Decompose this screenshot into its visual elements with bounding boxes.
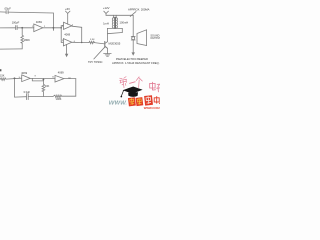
transformer T1 core <box>114 17 117 28</box>
wire to base <box>82 42 89 44</box>
svg-text:100mH: 100mH <box>120 21 129 25</box>
wire U1a output <box>43 27 61 29</box>
wire feedback bottom left <box>28 95 53 97</box>
svg-text:.05µF: .05µF <box>4 6 11 10</box>
wire U1e output <box>64 78 76 80</box>
wire input left <box>0 27 16 29</box>
wire R3 drop <box>42 79 44 85</box>
inverter U1a <box>34 24 43 32</box>
node junction R3 top <box>43 79 45 81</box>
wire feedback bottom right <box>62 95 76 97</box>
watermark char 3 <box>136 77 143 88</box>
resistor R1 180K <box>21 28 24 49</box>
inverter U1d <box>22 75 31 82</box>
wire top feedback left <box>0 11 6 13</box>
resistor R4 100K <box>53 95 62 98</box>
wire piezo bottom <box>132 40 134 53</box>
wire U1d output <box>30 77 55 79</box>
wire LFO input left <box>0 78 2 80</box>
wire LFO drop vertical <box>14 78 16 97</box>
wire collector vertical <box>106 28 108 41</box>
node junction feedback <box>53 27 55 29</box>
junction dots <box>14 27 83 81</box>
watermark red block 2 <box>136 97 144 106</box>
watermark red block 3 <box>144 95 153 105</box>
svg-text:+6V: +6V <box>65 7 70 11</box>
node junction LFO input <box>14 77 16 79</box>
wire U1c output <box>72 41 82 43</box>
wire emitter down <box>106 48 108 53</box>
wire box right vertical <box>121 28 123 32</box>
node A junction tick <box>52 28 54 31</box>
svg-text:TRY TIP29C: TRY TIP29C <box>88 60 103 64</box>
stray mark left edge <box>0 69 1 71</box>
svg-text:APPROX. 1.5KHZ RESONANT FREQ.: APPROX. 1.5KHZ RESONANT FREQ. <box>112 61 160 65</box>
capacitor C2 100pF <box>16 26 17 30</box>
wire top feedback right <box>8 11 54 14</box>
svg-text:+12V: +12V <box>103 6 110 10</box>
wire output drop vertical <box>81 27 83 42</box>
node junction outputs <box>81 42 82 43</box>
svg-text:4069: 4069 <box>21 71 27 75</box>
speaker cone <box>137 30 147 46</box>
wire feedback right vertical <box>75 79 77 97</box>
watermark char 2 <box>129 82 135 84</box>
svg-text:WWW.CCD2: WWW.CCD2 <box>144 106 160 110</box>
power +6V arrow <box>66 11 71 24</box>
watermark char dian outline <box>154 96 160 104</box>
svg-text:100pF: 100pF <box>12 21 20 25</box>
resistor R3 10K <box>42 84 45 92</box>
arrow to caption <box>132 52 135 55</box>
text labels <box>0 6 161 101</box>
ground symbol <box>104 54 112 57</box>
svg-text:4069: 4069 <box>58 71 64 75</box>
resistor R5 3.3K <box>89 41 94 43</box>
inverter U1b <box>64 22 72 29</box>
piezo BZ1 <box>131 36 135 40</box>
wire box top <box>107 27 122 29</box>
resistor R2 15K <box>1 78 6 81</box>
watermark red block 1 <box>128 97 136 106</box>
svg-text:OUTPUT: OUTPUT <box>150 37 160 40</box>
svg-text:APPROX. 200MA: APPROX. 200MA <box>128 7 150 11</box>
svg-text:1mH: 1mH <box>103 21 109 25</box>
wire R3 bottom <box>42 92 44 97</box>
watermark graduation cap <box>121 87 143 98</box>
wire jog to R3 <box>32 78 43 81</box>
transistor Q1 <box>105 42 108 49</box>
watermark char zi <box>156 84 160 92</box>
capacitor C1 .05uF <box>6 10 8 13</box>
svg-text:10K: 10K <box>45 85 50 88</box>
power +12V arrow <box>104 11 109 15</box>
inverter U1e <box>55 75 64 82</box>
wire base <box>94 43 104 44</box>
svg-text:15K: 15K <box>0 74 5 77</box>
svg-text:4069: 4069 <box>64 32 70 36</box>
wire bottom return <box>0 48 22 50</box>
leader to Q1 <box>94 48 104 59</box>
wire box bottom <box>107 33 122 34</box>
node junction R1 <box>21 27 23 29</box>
wire input bar of parallel pair <box>60 26 62 43</box>
leader approx current <box>130 12 136 17</box>
node junction pair input <box>60 27 62 29</box>
svg-text:3.3µF: 3.3µF <box>23 90 30 94</box>
watermark char 1 <box>119 76 128 88</box>
wire supply top <box>106 14 133 16</box>
svg-text:4069: 4069 <box>36 20 42 24</box>
transformer T1 primary winding <box>112 18 113 28</box>
wire cap to corner <box>15 96 27 98</box>
svg-text:180K: 180K <box>24 38 30 42</box>
wire primary top stub <box>113 15 115 17</box>
svg-text:100K: 100K <box>56 98 62 101</box>
wire secondary top stub <box>115 15 117 17</box>
wire feedback vertical <box>52 13 54 30</box>
svg-text:WWW.: WWW. <box>109 100 128 106</box>
wire input right <box>17 27 34 29</box>
svg-text:3.3K: 3.3K <box>90 39 95 41</box>
capacitor C3 3.3uF <box>27 94 29 100</box>
wire stub U1b input <box>61 25 63 27</box>
svg-text:MJE3055: MJE3055 <box>109 41 121 45</box>
wire U1b output <box>72 26 82 27</box>
wire winding bottoms <box>114 27 117 29</box>
inverter U1c <box>63 39 71 46</box>
watermark char dian <box>150 82 156 90</box>
wire piezo top vertical <box>132 15 134 36</box>
ground arrow under U1c <box>65 45 68 58</box>
wire stub U1c input <box>61 41 63 43</box>
wire to U1d <box>6 77 22 80</box>
transformer T1 secondary winding <box>116 18 117 28</box>
